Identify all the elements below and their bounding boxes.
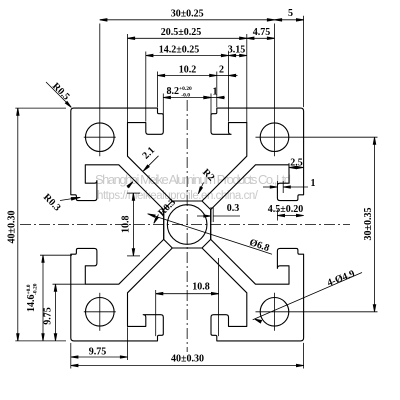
svg-text:4.75: 4.75: [253, 27, 271, 38]
svg-text:5: 5: [288, 8, 293, 19]
svg-text:14.2±0.25: 14.2±0.25: [159, 45, 200, 56]
svg-text:0.3: 0.3: [227, 203, 240, 214]
dim 0.3: [210, 207, 212, 222]
vertical centerline: [186, 100, 188, 352]
watermark company name: [95, 172, 291, 202]
dim 10.2: [158, 75, 217, 77]
dim 14.6 left: [42, 255, 44, 341]
leader D6.8: [148, 214, 273, 255]
dim 14.2+-0.25: [146, 55, 229, 57]
dim 9.75 bottom: [71, 356, 128, 358]
leader R0.5: [46, 82, 71, 107]
svg-text:40±0.30: 40±0.30: [6, 211, 17, 244]
crosshair bottom-right hole: [256, 311, 378, 313]
corner hole top-left D4.9: [86, 123, 115, 152]
dim 30+-0.35 right: [374, 137, 376, 312]
dim 40+-0.30 bottom: [71, 365, 304, 367]
svg-text:10.8: 10.8: [192, 281, 210, 292]
dim 1 right (arrows outside): [276, 181, 278, 193]
corner hole bottom-left D4.9: [86, 298, 115, 327]
svg-text:Shanghai Meike Aluminum Produc: Shanghai Meike Aluminum Products Co.,Ltd: [95, 172, 291, 187]
dim 1 top (arrows outside): [204, 96, 211, 99]
leader R0.3 left: [60, 198, 80, 201]
dim 9.75 left: [55, 284, 57, 341]
svg-text:2: 2: [219, 64, 224, 75]
leader R0.3 center: [154, 215, 158, 223]
center hub octagon: [164, 201, 211, 248]
svg-text:https://meikealuprofile.en.chi: https://meikealuprofile.en.china.cn/: [97, 190, 259, 202]
svg-text:1: 1: [311, 178, 316, 189]
svg-text:40±0.30: 40±0.30: [171, 354, 204, 365]
dim 30+-0.25 top: [100, 19, 275, 21]
svg-text:3.15: 3.15: [228, 45, 246, 56]
leader R2: [199, 183, 204, 193]
svg-text:30±0.35: 30±0.35: [363, 208, 374, 241]
dim 5 top right: [275, 19, 304, 21]
dim 3.15: [229, 55, 247, 57]
dim 8.2 +0.20/-0.0: [163, 97, 211, 99]
svg-text:9.75: 9.75: [43, 307, 54, 325]
dim 4.5+-0.20 right: [277, 215, 303, 217]
dim 4.75: [247, 37, 275, 39]
svg-text:30±0.25: 30±0.25: [171, 8, 204, 19]
crosshair top-left hole: [84, 136, 116, 138]
leader 2.1 (web thickness): [144, 156, 159, 171]
crosshair top-right hole: [256, 136, 378, 138]
svg-text:10.2: 10.2: [179, 64, 197, 75]
svg-text:4.5±0.20: 4.5±0.20: [268, 204, 304, 215]
svg-text:2.5: 2.5: [290, 158, 303, 169]
profile outline 40x40 extrusion: [71, 108, 304, 341]
leader 4-D4.9: [253, 273, 362, 320]
dim 10.8 horizontal: [156, 293, 219, 295]
svg-text:9.75: 9.75: [89, 347, 107, 358]
svg-text:14.6+0.0-0.20: 14.6+0.0-0.20: [26, 283, 38, 312]
corner hole bottom-right D4.9: [260, 298, 289, 327]
horizontal centerline: [20, 224, 350, 226]
crosshair bottom-left hole: [84, 311, 116, 313]
svg-text:10.8: 10.8: [121, 215, 132, 233]
dim 40+-0.30 left: [17, 108, 19, 341]
dim 2.5 right: [289, 167, 304, 169]
dim 10.8 vertical: [132, 193, 134, 256]
dim 2 (arrows outside): [217, 75, 229, 77]
svg-text:1: 1: [213, 86, 218, 97]
center bore hole D6.8: [167, 205, 207, 245]
svg-text:20.5±0.25: 20.5±0.25: [161, 27, 202, 38]
corner hole top-right D4.9: [260, 123, 289, 152]
dim 20.5+-0.25: [128, 37, 247, 39]
